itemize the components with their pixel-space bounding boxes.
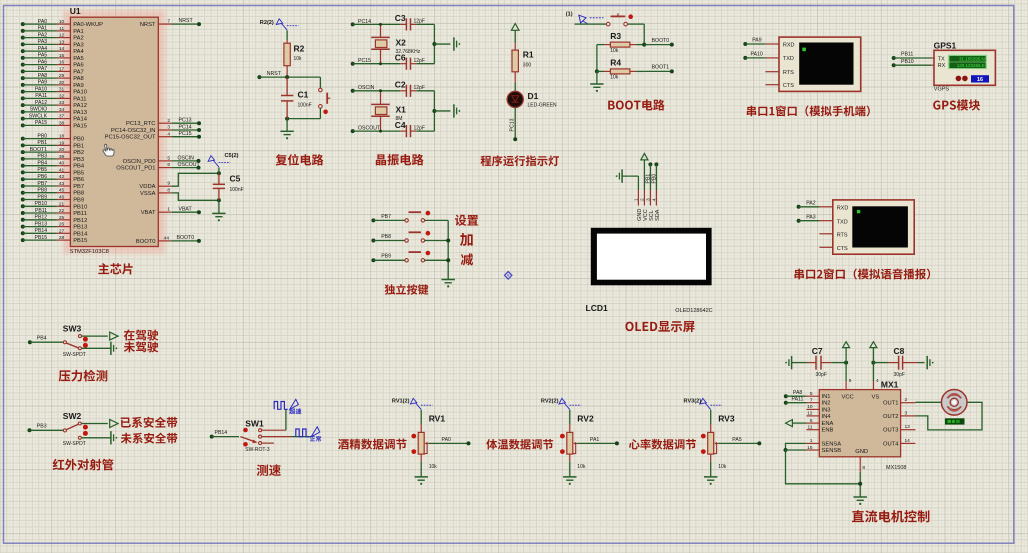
svg-text:16: 16 [977, 77, 983, 83]
svg-text:45: 45 [59, 188, 65, 194]
switch SW3 pole [63, 341, 66, 344]
svg-text:SW-SPDT: SW-SPDT [63, 352, 86, 358]
pin PB7 (U1 pin 43) wire+label [21, 184, 25, 188]
svg-text:MX1508: MX1508 [886, 465, 907, 471]
button (BOOT) plunger [611, 15, 626, 17]
pin BOOT1 (U1 pin 20) wire+label [21, 150, 25, 154]
svg-text:2: 2 [905, 397, 908, 403]
wire RV2 bottom [569, 454, 571, 462]
svg-text:PA12: PA12 [73, 103, 87, 109]
pin PB14 (U1 pin 27) wire+label [21, 231, 25, 235]
pin PA1 (U1 pin 11) wire+label [21, 29, 25, 33]
capacitor C8 [873, 362, 888, 364]
svg-text:9: 9 [849, 378, 852, 384]
pin PB0 (U1 pin 18) wire+label [21, 137, 25, 141]
svg-text:VDDA: VDDA [139, 184, 155, 190]
svg-text:30: 30 [59, 80, 65, 86]
svg-text:U1: U1 [70, 6, 81, 16]
probe RV3(2) [700, 398, 706, 404]
junction VCC [844, 361, 848, 365]
switch SW1 click dots [243, 428, 248, 433]
node PC13 dot [513, 137, 517, 141]
junction BOOT0 [642, 43, 646, 47]
GPS1 leds [956, 76, 962, 82]
probe normal [311, 427, 320, 437]
label normal [310, 436, 321, 442]
svg-text:13: 13 [905, 424, 911, 430]
svg-text:28: 28 [59, 235, 65, 241]
wire SW1 throw1 [262, 429, 286, 431]
svg-text:PA0: PA0 [38, 19, 48, 25]
svg-text:7: 7 [167, 18, 170, 24]
svg-text:PB7: PB7 [381, 214, 391, 220]
svg-text:30pF: 30pF [894, 372, 905, 378]
svg-text:(1): (1) [566, 12, 573, 18]
svg-text:VCC: VCC [842, 394, 854, 400]
svg-text:PA1: PA1 [590, 437, 600, 443]
svg-text:31.155295,N: 31.155295,N [959, 57, 985, 62]
wire RV1 wiper to PA0 [429, 442, 469, 444]
svg-text:PA7: PA7 [38, 66, 48, 72]
probe overspeed [290, 399, 299, 409]
svg-text:ENB: ENB [822, 428, 834, 434]
switch SW2 blade [66, 424, 78, 430]
pin PA3 (U1 pin 13) wire+label [21, 42, 25, 46]
svg-text:PA15: PA15 [73, 123, 87, 129]
svg-text:PB15: PB15 [73, 238, 87, 244]
svg-text:SW-SPDT: SW-SPDT [63, 441, 86, 447]
potentiometer RV2 body [567, 432, 573, 454]
svg-text:39: 39 [59, 154, 65, 160]
svg-text:PA2: PA2 [806, 200, 816, 206]
wire VCC to MX1 [845, 348, 847, 381]
power terminal (SW2) [110, 420, 118, 428]
svg-text:VGPS: VGPS [934, 87, 950, 93]
button (BOOT) contacts [606, 22, 610, 26]
label 设置 [455, 215, 478, 226]
svg-text:BOOT1: BOOT1 [652, 65, 670, 71]
svg-text:40: 40 [59, 161, 65, 167]
svg-text:PB5: PB5 [37, 167, 47, 173]
pin PA2 (U1 pin 12) wire+label [21, 36, 25, 40]
power terminal (SW3) [110, 332, 118, 340]
svg-text:12: 12 [807, 411, 813, 417]
svg-text:PA8: PA8 [38, 73, 48, 79]
svg-text:10k: 10k [294, 56, 303, 62]
pin PB10 (U1 pin 21) wire+label [21, 204, 25, 208]
svg-text:100nF: 100nF [230, 187, 244, 193]
motor M1 [941, 390, 967, 416]
MX1 pin OUT3 (13) [901, 429, 916, 431]
svg-text:13: 13 [59, 39, 65, 45]
svg-text:RV2: RV2 [577, 414, 594, 424]
resistor R4 [597, 70, 604, 72]
svg-text:15: 15 [59, 53, 65, 59]
svg-text:NRST: NRST [140, 22, 156, 28]
svg-text:OLED128642C: OLED128642C [675, 308, 712, 314]
node PB11 [892, 56, 896, 60]
node PA2 [797, 205, 801, 209]
node PC15 (U1 pin 4) [158, 136, 172, 138]
svg-text:NRST: NRST [179, 18, 194, 24]
svg-text:PA12: PA12 [35, 100, 47, 106]
serial2 box [833, 200, 914, 254]
svg-text:12pF: 12pF [414, 58, 425, 64]
svg-text:43: 43 [59, 181, 65, 187]
svg-text:2: 2 [167, 118, 170, 124]
ground terminal (SW2) [110, 431, 112, 444]
capacitor C2 [400, 90, 406, 92]
power terminal (MX VCC) [843, 342, 850, 348]
svg-text:ENA: ENA [822, 421, 834, 427]
ground (RV2) [563, 476, 576, 478]
serial1 screen [799, 43, 853, 85]
wire RV3 bottom [710, 454, 712, 462]
svg-text:BOOT0: BOOT0 [136, 239, 156, 245]
svg-text:BOOT0: BOOT0 [177, 235, 195, 241]
svg-text:PA9: PA9 [73, 83, 84, 89]
svg-text:GPS1: GPS1 [934, 41, 957, 51]
svg-text:SENSB: SENSB [822, 448, 842, 454]
svg-text:VSSA: VSSA [140, 191, 156, 197]
wire D1 to PC13 [514, 108, 516, 140]
svg-text:RV1: RV1 [429, 414, 446, 424]
svg-text:44: 44 [164, 235, 170, 241]
chip U1 body [70, 17, 158, 246]
svg-text:TX: TX [938, 57, 945, 63]
svg-text:10k: 10k [610, 75, 619, 81]
MX1 pin IN3 (10) [806, 408, 819, 410]
pin PA6 (U1 pin 16) wire+label [21, 63, 25, 67]
svg-text:SW-ROT-3: SW-ROT-3 [245, 447, 270, 453]
svg-text:PB8: PB8 [73, 191, 84, 197]
wire NRST horizontal [259, 76, 320, 78]
push button PB8 [371, 239, 375, 243]
potentiometer RV1 body [418, 432, 424, 454]
svg-text:PC13: PC13 [510, 118, 516, 131]
svg-text:29: 29 [59, 73, 65, 79]
svg-text:PA2: PA2 [38, 32, 48, 38]
svg-text:PA11: PA11 [792, 396, 804, 402]
wire R2 to NRST node [286, 66, 288, 77]
svg-text:RX: RX [938, 63, 946, 69]
node SCL dot [648, 162, 652, 166]
wire OLED SDA [655, 164, 657, 190]
svg-text:TXD: TXD [837, 219, 848, 225]
svg-text:PB10: PB10 [73, 204, 87, 210]
svg-text:PB4: PB4 [73, 164, 85, 170]
wire SW2 down [81, 437, 111, 439]
svg-text:PB11: PB11 [901, 52, 913, 58]
label 加 [460, 233, 473, 246]
svg-text:PA10: PA10 [751, 52, 763, 58]
svg-text:IN2: IN2 [822, 401, 831, 407]
svg-text:PB2: PB2 [73, 150, 84, 156]
svg-text:32.768KHz: 32.768KHz [396, 49, 421, 55]
node PA9 [743, 42, 747, 46]
svg-text:LCD1: LCD1 [586, 303, 608, 313]
svg-text:STM32F103C8: STM32F103C8 [70, 249, 109, 255]
svg-text:PA3: PA3 [38, 39, 48, 45]
RV1 adjust dots [411, 434, 416, 439]
svg-text:10k: 10k [610, 48, 619, 54]
ground terminal (C7) [791, 356, 793, 369]
node OSCOUT [351, 129, 355, 133]
svg-text:PA11: PA11 [35, 93, 47, 99]
power terminal (MX VS) [870, 342, 877, 348]
ground (buttons) [442, 279, 455, 281]
svg-text:PA6: PA6 [38, 59, 48, 65]
svg-text:PB3: PB3 [37, 154, 47, 160]
svg-text:PA0: PA0 [442, 437, 452, 443]
svg-text:PA6: PA6 [73, 63, 84, 69]
svg-text:PA0-WKUP: PA0-WKUP [73, 22, 103, 28]
svg-text:OUT3: OUT3 [883, 428, 898, 434]
svg-text:R2(2): R2(2) [260, 20, 274, 26]
button bus vertical [447, 220, 449, 270]
title BOOT circuit [608, 99, 664, 110]
pin PA0 (U1 pin 10) wire+label [21, 22, 25, 26]
capacitor C5 [218, 173, 220, 184]
button (BOOT) click dot [628, 14, 633, 19]
title crystal circuit [376, 154, 424, 166]
pin PA12 (U1 pin 33) wire+label [21, 103, 25, 107]
node PB14 [210, 435, 214, 439]
label belt on [121, 417, 178, 428]
svg-text:PB14: PB14 [215, 430, 228, 436]
wire probe to RV1 [420, 410, 422, 424]
probe RV1(2) [410, 398, 416, 404]
svg-text:26: 26 [59, 222, 65, 228]
svg-text:PC13: PC13 [179, 118, 192, 124]
svg-text:C1: C1 [298, 89, 309, 99]
wire button to BOOT0 node [628, 23, 645, 25]
svg-text:PB10: PB10 [34, 201, 47, 207]
svg-text:RV2(2): RV2(2) [541, 398, 559, 404]
switch SW3 throws [79, 335, 82, 338]
wire to ground tick [434, 110, 450, 112]
svg-text:PA10: PA10 [35, 86, 47, 92]
svg-text:OUT4: OUT4 [883, 441, 899, 447]
probe RV2(2) [559, 398, 565, 404]
RV3 adjust dots [701, 434, 706, 439]
ground (C5) [212, 212, 225, 214]
svg-text:6: 6 [810, 418, 813, 424]
svg-text:PB11: PB11 [35, 208, 47, 214]
probe R2(2) [276, 19, 282, 25]
pin PB6 (U1 pin 42) wire+label [21, 177, 25, 181]
svg-text:PB14: PB14 [34, 228, 47, 234]
pin PB11 (U1 pin 22) wire+label [21, 211, 25, 215]
ground terminal (OLED) [621, 169, 623, 182]
wire VS to MX1 [872, 348, 874, 381]
pin PB8 (U1 pin 45) wire+label [21, 191, 25, 195]
title reset circuit [276, 154, 324, 166]
svg-text:LED-GREEN: LED-GREEN [528, 103, 558, 109]
svg-text:21: 21 [59, 201, 65, 207]
svg-text:12: 12 [59, 33, 65, 39]
svg-text:PC15-OSC32_OUT: PC15-OSC32_OUT [105, 135, 156, 141]
LED D1 [507, 91, 523, 107]
node OSCOUT (U1 pin 6) [158, 167, 172, 169]
svg-text:SW3: SW3 [63, 323, 82, 333]
ground (MX) [854, 496, 867, 498]
svg-text:300: 300 [523, 62, 532, 68]
svg-text:7: 7 [810, 398, 813, 404]
ground (RV3) [704, 476, 717, 478]
ground (RV1) [415, 476, 428, 478]
svg-text:PC14: PC14 [179, 124, 192, 130]
title serial1 [747, 105, 870, 116]
svg-text:16: 16 [59, 60, 65, 66]
svg-text:4: 4 [876, 378, 879, 384]
node PA8 [784, 394, 788, 398]
svg-text:10: 10 [59, 19, 65, 25]
svg-text:RV1(2): RV1(2) [392, 398, 410, 404]
svg-text:1: 1 [810, 438, 813, 444]
MX1 pin IN4 (12) [806, 415, 819, 417]
pin PB9 (U1 pin 46) wire+label [21, 198, 25, 202]
MX1 pin OUT4 (14) [901, 442, 916, 444]
pin PB13 (U1 pin 26) wire+label [21, 225, 25, 229]
MX1 pin IN1 (5) [806, 395, 819, 397]
resistor R1 [512, 50, 518, 72]
node PC13 (U1 pin 2) [158, 122, 172, 124]
svg-text:PB10: PB10 [901, 59, 914, 65]
title 酒精数据调节 [338, 439, 407, 450]
svg-text:PB12: PB12 [34, 215, 47, 221]
svg-text:RTS: RTS [783, 70, 794, 76]
svg-text:C5: C5 [230, 174, 241, 184]
junction dot C5 top [217, 171, 221, 175]
button (reset) plunger [326, 93, 328, 104]
svg-text:X1: X1 [396, 105, 407, 115]
pin PB1 (U1 pin 19) wire+label [21, 143, 25, 147]
GPS1 display [948, 55, 987, 69]
svg-text:TXD: TXD [783, 56, 794, 62]
svg-text:PA14: PA14 [73, 117, 88, 123]
pin PA11 (U1 pin 32) wire+label [21, 96, 25, 100]
ground (BOOT) [590, 83, 603, 85]
svg-text:PA15: PA15 [35, 120, 47, 126]
MX1 pin ENA (6) [806, 422, 819, 424]
title independent buttons [385, 284, 429, 295]
svg-text:18: 18 [59, 134, 65, 140]
svg-text:PC14-OSC32_IN: PC14-OSC32_IN [111, 128, 155, 134]
switch SW2 pole [63, 429, 66, 432]
wire VSSA (U1 pin8) [158, 192, 172, 194]
svg-text:PB6: PB6 [73, 177, 84, 183]
svg-text:PB4: PB4 [37, 336, 47, 342]
svg-text:PB0: PB0 [652, 174, 658, 184]
svg-text:14: 14 [905, 438, 911, 444]
svg-text:PA1: PA1 [73, 29, 84, 35]
wire to button top [319, 77, 321, 88]
svg-text:PA1: PA1 [38, 26, 48, 32]
pin PA15 (U1 pin 38) wire+label [21, 123, 25, 127]
svg-text:1: 1 [167, 207, 170, 213]
svg-text:IN3: IN3 [822, 407, 831, 413]
power terminal (ENA) [786, 420, 793, 427]
pin PB15 (U1 pin 28) wire+label [21, 238, 25, 242]
svg-text:SENSA: SENSA [822, 441, 842, 447]
capacitor C1 [286, 77, 288, 95]
title 体温数据调节 [486, 439, 553, 450]
svg-text:3: 3 [167, 125, 170, 131]
wire SW1 throw3 [262, 442, 274, 444]
title GPS module [933, 99, 980, 110]
RV2 wiper [573, 442, 576, 445]
resistor R2 [284, 43, 290, 65]
svg-text:PA3: PA3 [806, 214, 816, 220]
node SDA dot [654, 162, 658, 166]
title OLED display [625, 321, 694, 332]
svg-text:11: 11 [59, 26, 64, 32]
svg-text:PB1: PB1 [37, 140, 47, 146]
label not driving [124, 341, 159, 352]
capacitor C4 [400, 130, 406, 132]
svg-text:VS: VS [872, 394, 880, 400]
pin PA4 (U1 pin 14) wire+label [21, 49, 25, 53]
wire power to R1 [514, 30, 516, 42]
svg-text:25: 25 [59, 215, 65, 221]
wire probe to button [575, 23, 607, 25]
capacitor C7 [792, 362, 807, 364]
svg-text:33: 33 [59, 100, 65, 106]
switch SW1 blade [240, 437, 256, 443]
wire probe to RV2 [569, 410, 571, 424]
title main chip [98, 263, 132, 274]
svg-text:PA4: PA4 [38, 46, 48, 52]
svg-text:PB1: PB1 [73, 143, 84, 149]
svg-text:C5(2): C5(2) [225, 153, 239, 159]
svg-text:100nF: 100nF [298, 102, 312, 108]
svg-text:CTS: CTS [783, 83, 794, 89]
ground terminal (crystal) [453, 104, 455, 117]
svg-text:R3: R3 [610, 31, 621, 41]
wire crystal right vertical [433, 91, 435, 131]
svg-text:PC13_RTC: PC13_RTC [126, 121, 156, 127]
svg-text:11: 11 [808, 425, 813, 431]
node PC14 [351, 22, 355, 26]
svg-text:PB9: PB9 [37, 194, 47, 200]
svg-text:PB9: PB9 [381, 254, 391, 260]
motor speed display [945, 418, 965, 424]
svg-text:PB3: PB3 [37, 424, 47, 430]
svg-text:PA8: PA8 [73, 76, 84, 82]
svg-text:IN4: IN4 [822, 414, 832, 420]
capacitor C6 [400, 63, 406, 65]
svg-text:PB7: PB7 [73, 184, 84, 190]
wire R1 to D1 [514, 72, 516, 83]
svg-text:CTS: CTS [837, 246, 848, 252]
svg-text:RTS: RTS [837, 232, 848, 238]
svg-text:PA13: PA13 [73, 110, 87, 116]
node OSCIN [351, 89, 355, 93]
svg-text:8: 8 [862, 465, 865, 471]
power terminal (OLED VCC) [641, 153, 648, 160]
svg-text:R2: R2 [294, 43, 305, 53]
svg-text:27: 27 [59, 228, 65, 234]
wire SW1 throw2 [262, 436, 292, 438]
pin PA9 (U1 pin 30) wire+label [21, 83, 25, 87]
svg-text:PA3: PA3 [73, 42, 84, 48]
svg-text:8: 8 [167, 187, 170, 193]
svg-text:PA7: PA7 [73, 69, 84, 75]
GPS1 box [934, 50, 995, 85]
svg-text:PB4: PB4 [37, 161, 47, 167]
svg-text:17: 17 [59, 66, 65, 72]
